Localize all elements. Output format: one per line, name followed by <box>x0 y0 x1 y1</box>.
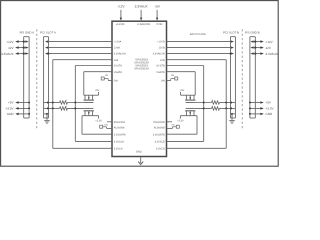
svg-text:ON: ON <box>105 74 109 77</box>
svg-text:AUXONB: AUXONB <box>154 127 165 130</box>
svg-text:3.3VAUXA: 3.3VAUXA <box>114 53 126 56</box>
svg-text:MAX5919A: MAX5919A <box>134 67 149 71</box>
svg-text:GND: GND <box>136 151 142 154</box>
svg-text:3.3VGATB: 3.3VGATB <box>153 133 165 136</box>
svg-text:+3.3V: +3.3V <box>95 119 102 122</box>
svg-text:PGOODB: PGOODB <box>154 121 165 124</box>
svg-text:ON: ON <box>171 123 175 126</box>
svg-text:PCI SLOT A: PCI SLOT A <box>40 30 56 34</box>
svg-text:12VA: 12VA <box>114 47 120 50</box>
svg-text:SYSTB: SYSTB <box>156 65 165 68</box>
svg-text:3.3VCA: 3.3VCA <box>114 147 123 150</box>
svg-text:AUXONA: AUXONA <box>114 127 125 130</box>
svg-text:+12V: +12V <box>6 40 14 44</box>
svg-text:12VB: 12VB <box>158 47 165 50</box>
svg-text:3.3VGATA: 3.3VGATA <box>114 133 126 136</box>
svg-text:PCI SLOT B: PCI SLOT B <box>223 30 239 34</box>
svg-text:+5V: +5V <box>265 101 272 105</box>
svg-text:PGOODA: PGOODA <box>114 121 125 124</box>
svg-text:GND: GND <box>7 112 15 116</box>
svg-text:12V: 12V <box>265 46 271 50</box>
svg-text:LVA: LVA <box>114 59 119 62</box>
svg-text:3.3VCB: 3.3VCB <box>156 147 165 150</box>
svg-text:GND: GND <box>265 112 273 116</box>
svg-text:VGATB: VGATB <box>156 71 165 74</box>
svg-text:+5V: +5V <box>95 89 100 92</box>
svg-text:+5V: +5V <box>154 5 161 9</box>
svg-text:VGATA: VGATA <box>114 71 123 74</box>
svg-text:2: 2 <box>212 99 213 102</box>
svg-text:3.3VAUX: 3.3VAUX <box>135 5 149 9</box>
svg-text:+12V: +12V <box>117 5 125 9</box>
svg-text:ON: ON <box>114 80 118 83</box>
svg-text:+12VA: +12VA <box>114 41 122 44</box>
svg-text:BACKPLANE: BACKPLANE <box>190 33 206 36</box>
svg-text:LVB: LVB <box>160 59 165 62</box>
svg-text:SYSTA: SYSTA <box>114 65 122 68</box>
svg-text:+12VB: +12VB <box>157 41 165 44</box>
svg-text:+3.3V: +3.3V <box>5 107 14 111</box>
svg-text:2: 2 <box>66 105 67 108</box>
svg-text:P/S GND B: P/S GND B <box>245 30 260 34</box>
svg-text:ON: ON <box>171 74 175 77</box>
svg-text:12V: 12V <box>8 46 14 50</box>
svg-text:+3.3V: +3.3V <box>177 119 184 122</box>
svg-text:3.3VAUXB: 3.3VAUXB <box>153 53 165 56</box>
svg-text:CVIN: CVIN <box>156 23 162 26</box>
svg-text:+12V: +12V <box>265 40 273 44</box>
svg-text:3.3VSLA: 3.3VSLA <box>114 141 124 144</box>
svg-text:ON: ON <box>104 123 108 126</box>
svg-text:+5V: +5V <box>180 89 185 92</box>
svg-text:3.3VAUX: 3.3VAUX <box>265 52 278 56</box>
svg-text:2: 2 <box>66 99 67 102</box>
svg-text:P/S GND A: P/S GND A <box>20 30 35 34</box>
svg-text:ON: ON <box>161 80 165 83</box>
svg-text:3.3VSLB: 3.3VSLB <box>155 141 165 144</box>
svg-text:+3.3V: +3.3V <box>265 107 274 111</box>
svg-text:+5V: +5V <box>8 101 15 105</box>
svg-text:+12VIN: +12VIN <box>116 23 125 26</box>
svg-text:3.3VAUX: 3.3VAUX <box>1 52 14 56</box>
svg-text:2: 2 <box>212 105 213 108</box>
svg-text:3.3VAUXIN: 3.3VAUXIN <box>137 23 150 26</box>
